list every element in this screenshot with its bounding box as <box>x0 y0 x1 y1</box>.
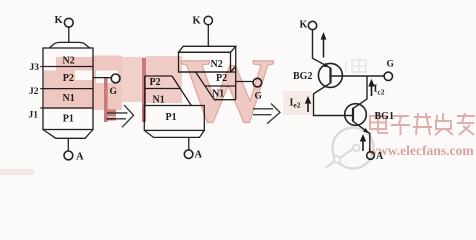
double arrow 1 <box>107 105 134 127</box>
pellet body rectangle <box>43 48 93 130</box>
BG2 emitter arrowhead <box>323 63 329 68</box>
svg-text:K: K <box>193 16 202 27</box>
svg-text:BG2: BG2 <box>293 71 312 82</box>
BG2 collector wire down to BG1 base <box>314 83 353 116</box>
P1 box <box>144 106 204 131</box>
cathode terminal K (middle) <box>204 16 212 24</box>
svg-text:G: G <box>387 60 395 70</box>
BG1 collector wire up to gate node <box>353 76 367 108</box>
svg-text:J1: J1 <box>29 111 39 121</box>
current arrow at A wire <box>360 134 366 151</box>
anode terminal A (right) <box>367 152 375 160</box>
cathode terminal K (left) <box>64 18 73 27</box>
BG1 base bar <box>352 108 354 122</box>
svg-text:J2: J2 <box>29 87 39 97</box>
current arrow Ic2 (right, at gate node) <box>368 79 374 96</box>
svg-text:W: W <box>180 40 275 141</box>
svg-text:K: K <box>300 20 308 31</box>
cathode terminal K (right) <box>308 21 316 29</box>
junction J3 divider line <box>40 66 93 68</box>
P2/N1 left divider <box>145 88 180 90</box>
svg-text:A: A <box>195 150 203 161</box>
current arrow at K wire <box>321 32 327 58</box>
gate wire (middle) <box>236 81 254 83</box>
watermark bottom-left pink smudge <box>0 169 34 175</box>
anode terminal A (left) <box>64 151 73 160</box>
watermark faint gray glyphs <box>346 58 366 75</box>
wire K to top cap <box>68 27 70 42</box>
svg-text:P1: P1 <box>63 113 74 124</box>
gate wire to G (left) <box>93 77 112 79</box>
svg-text:J3: J3 <box>30 63 40 73</box>
gate terminal G (right) <box>384 72 392 80</box>
transistor BG1 circle <box>345 104 367 126</box>
base wire BG2 to G <box>331 75 385 77</box>
junction J2 divider line <box>40 88 93 90</box>
N2 slab top face <box>179 46 236 52</box>
watermark letter blocks (EEPW) <box>44 56 182 111</box>
left stack left edge <box>144 76 146 106</box>
svg-text:A: A <box>76 152 84 163</box>
current arrow Ie2 (left wire) <box>305 96 311 112</box>
P2 left box top edge <box>145 75 172 77</box>
N1 upper bottom edge <box>214 99 236 101</box>
watermark red text 电子发烧友 (fake glyphs) <box>370 113 475 135</box>
wire P1 cap to A <box>188 137 190 150</box>
svg-text:K: K <box>55 15 64 26</box>
N2 side face bottom edge <box>231 67 236 73</box>
BG1 emitter arrowhead <box>363 128 369 133</box>
wire K to N2 slab <box>207 25 209 47</box>
watermark letter stem bars <box>104 77 108 122</box>
watermark pink blob behind Ie2 <box>283 91 312 115</box>
N2 slab front face <box>179 52 231 72</box>
N2 bottom / P2 upper top edge <box>179 71 236 73</box>
BG2 base bar <box>329 68 331 83</box>
watermark gray logo circle <box>326 128 374 169</box>
P2/N1 upper divider <box>205 85 236 87</box>
anode terminal A (middle) <box>184 150 193 159</box>
BG1 emitter wire to A <box>353 121 370 152</box>
gate terminal G (middle) <box>253 78 262 87</box>
double arrow 2 <box>253 104 280 124</box>
wire K to BG2 emitter <box>313 30 331 68</box>
gate terminal G (left) <box>111 74 120 83</box>
P1 bottom cap <box>144 130 204 137</box>
svg-text:P1: P1 <box>166 112 177 123</box>
bottom cap (anode electrode) <box>43 130 93 139</box>
junction J1 divider line <box>40 107 93 109</box>
shear diagonal D2 (upper stack cut) <box>196 72 215 100</box>
wire bottom cap to A <box>67 138 69 151</box>
transistor BG2 circle <box>318 63 342 87</box>
top cap (dome electrode) <box>49 42 89 48</box>
svg-text:www.elecfans.com: www.elecfans.com <box>368 143 474 158</box>
shear diagonal D1 (lower stack cut) <box>172 76 191 106</box>
N2 slab right side edge <box>235 46 237 99</box>
